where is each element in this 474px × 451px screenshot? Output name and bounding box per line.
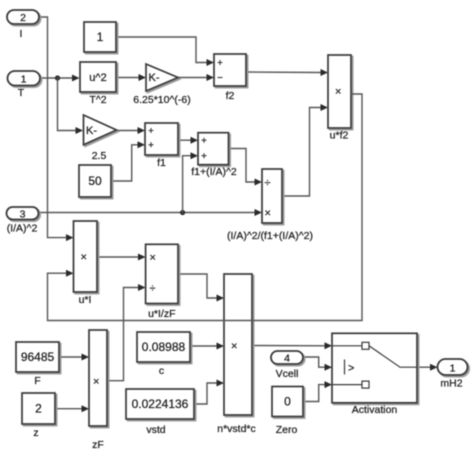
wire constant Zero to switch input3	[303, 381, 332, 401]
svg-text:T^2: T^2	[89, 94, 106, 106]
svg-text:Zero: Zero	[276, 424, 298, 436]
svg-text:0: 0	[284, 395, 291, 409]
inport 2 (I)	[7, 10, 39, 40]
svg-text:2: 2	[20, 12, 26, 24]
svg-text:×: ×	[81, 252, 87, 264]
product zF	[89, 330, 107, 451]
wire gain 6.25e-6 to sum f2 input2	[178, 74, 214, 81]
sum f1	[145, 123, 178, 169]
svg-text:F: F	[34, 375, 40, 387]
constant block 2 (z)	[22, 393, 55, 439]
product u*I	[74, 221, 98, 306]
wire product zF to product u*I/zF input2	[107, 284, 146, 381]
gain 2.5	[84, 115, 117, 162]
constant block 50	[79, 165, 111, 197]
svg-text:f1+(I/A)^2: f1+(I/A)^2	[191, 166, 237, 178]
svg-text:×: ×	[231, 341, 237, 353]
wire I inport to u*I input1	[39, 17, 74, 241]
constant block c (0.08988)	[137, 332, 190, 377]
wire constant 2 to product zF input2	[55, 405, 89, 412]
svg-text:mH2: mH2	[440, 378, 462, 390]
wire constant 50 to sum f1 input2	[111, 141, 145, 181]
svg-text:f2: f2	[226, 90, 235, 102]
switch block Activation	[332, 333, 417, 416]
sum f2	[214, 54, 246, 102]
svg-text:>: >	[348, 363, 354, 375]
wire sum f2 to product u*f2 input1	[246, 69, 328, 76]
wire T inport to u^2	[40, 75, 80, 82]
constant block vstd (0.0224136)	[126, 389, 194, 436]
svg-text:Activation: Activation	[352, 404, 398, 416]
svg-text:×: ×	[265, 208, 271, 220]
wire product u*f2 feedback to u*I input2	[48, 94, 363, 321]
wire u^2 to gain 6.25e-6	[116, 74, 146, 81]
svg-text:0.08988: 0.08988	[142, 340, 186, 354]
sum f1+(I/A)^2	[191, 133, 237, 178]
wire (I/A)^2 inport to divide input2	[37, 209, 262, 216]
wire Vcell inport to switch input2	[303, 357, 332, 371]
inport 1 (T)	[8, 71, 41, 99]
gain 6.25*10^(-6)	[133, 64, 190, 106]
svg-text:÷: ÷	[265, 177, 271, 189]
divide block (I/A)^2/(f1+(I/A)^2)	[227, 169, 313, 242]
svg-text:1: 1	[21, 74, 27, 86]
svg-text:÷: ÷	[150, 283, 156, 295]
svg-text:u^2: u^2	[89, 72, 106, 84]
svg-text:f1: f1	[157, 157, 166, 169]
svg-text:2.5: 2.5	[92, 150, 107, 162]
wire gain 2.5 to sum f1 input1	[116, 127, 145, 134]
svg-text:I: I	[20, 28, 23, 40]
wire product u*I/zF to product n*vstd*c input1	[178, 274, 224, 302]
wire constant 96485 to product zF input1	[59, 354, 89, 361]
svg-text:3: 3	[20, 209, 26, 221]
constant block Zero (0)	[272, 387, 303, 437]
svg-text:0.0224136: 0.0224136	[132, 397, 189, 411]
junction on T wire	[55, 75, 60, 80]
svg-text:1: 1	[97, 30, 104, 44]
svg-text:Vcell: Vcell	[276, 368, 299, 380]
svg-text:K-: K-	[149, 72, 160, 84]
svg-text:4: 4	[284, 353, 290, 365]
wire divide to product u*f2 input2	[282, 104, 328, 196]
wire constant c to product n*vstd*c input2	[190, 343, 224, 350]
svg-text:K-: K-	[86, 125, 97, 137]
svg-text:(I/A)^2: (I/A)^2	[7, 223, 38, 235]
wire product u*I to product u*I/zF input1	[97, 254, 146, 261]
svg-text:1: 1	[450, 363, 456, 375]
outport 1 (mH2)	[438, 359, 468, 390]
wire sum f1 to sum f1+(I/A)^2 input1	[178, 137, 198, 144]
svg-text:u*f2: u*f2	[330, 130, 349, 142]
wire constant vstd to product n*vstd*c input3	[194, 380, 224, 405]
svg-text:n*vstd*c: n*vstd*c	[217, 423, 256, 435]
constant block 1	[84, 22, 116, 52]
svg-text:×: ×	[150, 252, 156, 264]
wire switch to mH2 outport	[417, 364, 438, 371]
svg-text:zF: zF	[92, 439, 104, 451]
svg-text:T: T	[18, 87, 25, 99]
svg-text:96485: 96485	[21, 350, 55, 364]
constant block 96485	[16, 342, 59, 387]
svg-text:vstd: vstd	[146, 424, 165, 436]
svg-text:u*I/zF: u*I/zF	[148, 308, 175, 320]
wire junction to sum f1+(I/A)^2 input2	[183, 152, 198, 212]
wire product n*vstd*c to switch input1	[252, 342, 332, 349]
svg-text:2: 2	[35, 402, 42, 416]
svg-text:z: z	[33, 427, 38, 439]
svg-text:×: ×	[93, 376, 99, 388]
svg-text:(I/A)^2/(f1+(I/A)^2): (I/A)^2/(f1+(I/A)^2)	[227, 230, 313, 242]
inport 4 (Vcell)	[271, 351, 303, 380]
math function block u^2 (T^2)	[80, 62, 116, 106]
svg-text:c: c	[159, 365, 164, 377]
inport 3 ((I/A)^2)	[7, 207, 39, 235]
svg-text:6.25*10^(-6): 6.25*10^(-6)	[133, 94, 190, 106]
svg-text:50: 50	[88, 174, 102, 188]
product u*I/zF	[146, 244, 178, 320]
junction on (I/A)^2 wire	[180, 210, 185, 215]
wire constant 1 to sum f2 input1	[116, 37, 214, 66]
product n*vstd*c	[217, 274, 256, 435]
wire T junction to gain 2.5	[58, 78, 84, 134]
product u*f2	[328, 55, 351, 142]
svg-text:u*I: u*I	[79, 294, 92, 306]
wire sum f1+(I/A)^2 to divide input1	[229, 149, 263, 186]
svg-text:×: ×	[335, 86, 341, 98]
